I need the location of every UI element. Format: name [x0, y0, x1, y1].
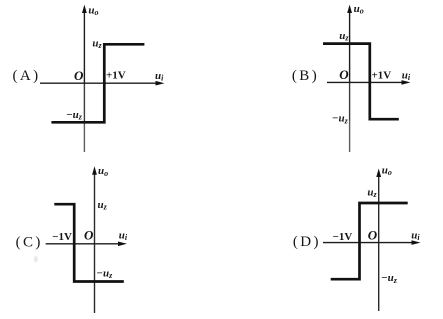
axis u_o vertical (B) upper part	[349, 8, 351, 83]
svg-text:O: O	[339, 67, 349, 82]
stray scan smudge left of C curve	[34, 256, 38, 262]
svg-text:(B): (B)	[292, 68, 319, 84]
axis u_o vertical (D)	[378, 172, 380, 311]
svg-text:O: O	[84, 228, 94, 243]
svg-text:(C): (C)	[16, 234, 43, 250]
arrowhead up (D)	[376, 169, 381, 178]
axis u_i horizontal (B)	[327, 81, 403, 83]
arrowhead right (C)	[118, 242, 127, 247]
transfer curve (A)	[51, 44, 144, 122]
axis u_o vertical (C)	[94, 170, 96, 313]
svg-text:−1V: −1V	[52, 231, 72, 243]
arrowhead up (B)	[347, 5, 352, 13]
arrowhead up (C)	[92, 166, 97, 175]
svg-text:+1V: +1V	[106, 70, 126, 82]
axis u_i horizontal (D)	[323, 242, 413, 244]
arrowhead right (A)	[156, 81, 165, 86]
svg-text:(A): (A)	[13, 68, 41, 84]
axis u_o vertical (B) lower tail	[349, 121, 351, 153]
arrowhead up (A)	[82, 5, 87, 13]
axis u_o vertical (A) middle part	[83, 84, 85, 124]
svg-text:+1V: +1V	[372, 69, 392, 81]
svg-text:−1V: −1V	[333, 231, 353, 243]
svg-text:O: O	[74, 68, 84, 83]
transfer curve (D)	[331, 203, 408, 279]
axis u_i horizontal (A)	[40, 82, 157, 84]
axis u_o vertical (B) middle part	[349, 83, 351, 121]
arrowhead right (D)	[412, 240, 421, 245]
transfer curve (B)	[323, 44, 399, 120]
transfer curve (C)	[54, 204, 124, 281]
arrowhead right (B)	[402, 80, 411, 85]
svg-text:O: O	[368, 228, 378, 243]
axis u_o vertical (A) upper part	[83, 8, 85, 84]
svg-text:(D): (D)	[293, 234, 321, 250]
axis u_o vertical (A) lower tail	[83, 124, 85, 153]
axis u_i horizontal (C)	[46, 243, 120, 245]
